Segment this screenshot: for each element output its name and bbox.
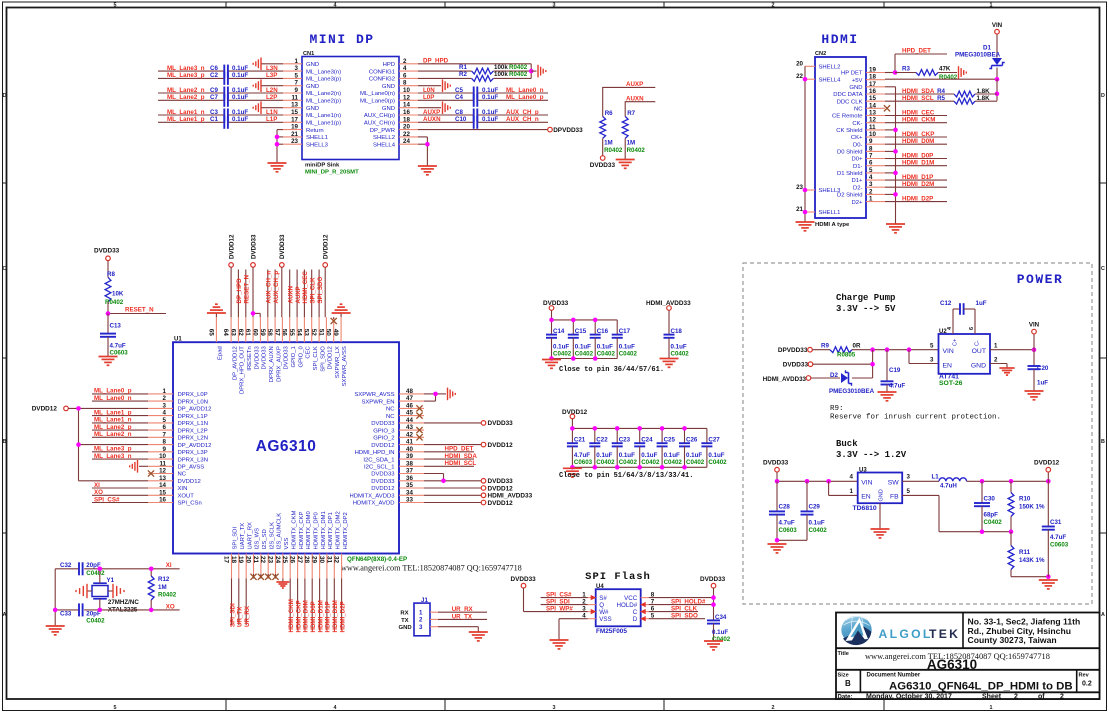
- junction cap rail: [549, 318, 554, 323]
- no-connect X U1 pin 22: [267, 574, 269, 579]
- diode D1 PMEG3010BEA: [989, 58, 1004, 69]
- capacitor C20 1uF: [1028, 350, 1049, 391]
- wire ML_Lane1_n to C3: [158, 114, 283, 116]
- resistor R3 47K: [895, 65, 958, 81]
- junction +5V: [995, 77, 1000, 82]
- svg-text:27MHZ/NC: 27MHZ/NC: [108, 599, 139, 606]
- svg-text:10K: 10K: [112, 291, 124, 298]
- svg-text:HDMI_D1M: HDMI_D1M: [317, 600, 324, 632]
- wire HPD_DET U1 pin 40: [424, 451, 474, 453]
- svg-text:RX: RX: [400, 611, 408, 617]
- svg-text:ML_Lane2_p: ML_Lane2_p: [167, 94, 205, 101]
- svg-text:3: 3: [930, 356, 934, 363]
- svg-text:10: 10: [159, 453, 166, 460]
- svg-text:CK-: CK-: [852, 121, 862, 127]
- title cell: [838, 651, 1050, 672]
- svg-text:R0402: R0402: [627, 147, 646, 154]
- wire U4 VCC rail: [649, 588, 714, 620]
- svg-text:L2P: L2P: [266, 94, 277, 101]
- ground buck output: [1039, 580, 1058, 589]
- svg-text:3: 3: [553, 2, 556, 8]
- svg-text:ML_Lane1_n: ML_Lane1_n: [94, 417, 132, 424]
- svg-text:2: 2: [1060, 694, 1064, 701]
- svg-text:19: 19: [237, 556, 244, 564]
- ground CN1 right shield: [443, 101, 451, 114]
- svg-text:11: 11: [291, 94, 298, 101]
- svg-text:R4: R4: [937, 88, 945, 95]
- svg-text:53: 53: [303, 329, 310, 337]
- svg-text:HDMI A type: HDMI A type: [815, 222, 850, 228]
- svg-text:HDMITX_DP1: HDMITX_DP1: [328, 512, 334, 549]
- svg-text:HPD_DET: HPD_DET: [902, 47, 931, 54]
- no-connect X U1 pin 46: [416, 405, 422, 411]
- wire DVDD33 cap rail: [552, 310, 618, 358]
- op-amp U1 AG6310 QFN64 body: [173, 337, 399, 554]
- svg-text:C32: C32: [60, 562, 72, 569]
- svg-text:21: 21: [291, 131, 298, 138]
- svg-text:DPRX_L1N: DPRX_L1N: [178, 421, 208, 427]
- svg-text:SW: SW: [888, 479, 900, 486]
- svg-text:3: 3: [163, 402, 167, 409]
- svg-text:35: 35: [406, 482, 413, 489]
- wire HDMI_D2P below U1 pin 32: [341, 579, 343, 631]
- capacitor C31 4.7uF: [1042, 481, 1069, 576]
- svg-text:1.8K: 1.8K: [977, 88, 991, 95]
- svg-text:C13: C13: [110, 323, 122, 330]
- size cell: [838, 672, 852, 688]
- svg-text:XOUT: XOUT: [178, 494, 195, 500]
- svg-text:HDMI_CKM: HDMI_CKM: [902, 117, 935, 124]
- svg-text:9: 9: [295, 87, 299, 94]
- svg-text:HDMITX_CKP: HDMITX_CKP: [299, 511, 305, 549]
- svg-text:8: 8: [163, 439, 167, 446]
- svg-text:ML_Lane3_p: ML_Lane3_p: [94, 446, 132, 453]
- junction SXPWR: [433, 392, 438, 397]
- svg-text:4: 4: [163, 410, 167, 417]
- svg-text:6: 6: [869, 160, 873, 167]
- wire ML_Lane2_n to C9: [158, 92, 283, 94]
- svg-text:56: 56: [281, 329, 288, 337]
- svg-text:15: 15: [291, 109, 298, 116]
- wire HDMI_D1P: [885, 179, 947, 181]
- svg-text:D: D: [633, 616, 638, 623]
- svg-text:DVDD33: DVDD33: [251, 234, 258, 259]
- power port DVDD12 right of U1: [481, 486, 486, 491]
- svg-text:1M: 1M: [604, 139, 613, 146]
- svg-text:HDMI_D1M: HDMI_D1M: [902, 160, 934, 167]
- svg-text:GPIO_1: GPIO_1: [291, 346, 297, 367]
- svg-text:65: 65: [207, 329, 214, 337]
- svg-text:VCC: VCC: [624, 595, 638, 602]
- wire UR_RX below U1 pin 19: [245, 579, 247, 626]
- svg-text:C29: C29: [809, 504, 821, 511]
- svg-text:SPI_CLK: SPI_CLK: [671, 605, 698, 612]
- svg-text:DVDD33: DVDD33: [371, 479, 395, 485]
- svg-text:C10: C10: [455, 116, 467, 123]
- power port VIN: [995, 29, 1000, 34]
- svg-text:47: 47: [406, 395, 413, 402]
- svg-text:ML_Lane2_p: ML_Lane2_p: [94, 424, 132, 431]
- svg-text:AUXN: AUXN: [288, 285, 295, 303]
- capacitor C16 0.1uF: [590, 320, 616, 359]
- svg-text:R8: R8: [107, 271, 115, 278]
- capacitor C13 4.7uF: [100, 314, 128, 357]
- svg-text:C0603: C0603: [110, 350, 129, 357]
- svg-text:13: 13: [869, 110, 876, 117]
- svg-text:GPIO_0: GPIO_0: [298, 345, 304, 367]
- wire CN1 GND pin: [261, 85, 283, 87]
- junction SHELL4: [803, 77, 808, 82]
- svg-text:C19: C19: [889, 367, 901, 374]
- svg-text:D: D: [1101, 93, 1105, 99]
- wire L0N to C5: [418, 92, 548, 94]
- svg-text:DVDD33: DVDD33: [284, 345, 290, 369]
- wire HDMI_D1M below U1 pin 29: [319, 579, 321, 631]
- svg-text:ML_Lane3(n): ML_Lane3(n): [306, 69, 341, 75]
- ground CN1 right shield: [443, 79, 451, 92]
- svg-text:0.1uF: 0.1uF: [232, 94, 248, 101]
- wire ML_Lane3_n to C6: [158, 70, 283, 72]
- wire U1 pin 41 to DVDD12: [424, 444, 481, 446]
- svg-text:18: 18: [869, 74, 876, 81]
- svg-text:SHELL2: SHELL2: [819, 65, 841, 71]
- svg-text:D0-: D0-: [853, 142, 863, 148]
- wire DVDD12 to pin64: [230, 267, 232, 317]
- no-connect X U1 pin12: [148, 470, 154, 476]
- resistor R8 10K: [105, 261, 124, 314]
- svg-text:DVDD12: DVDD12: [32, 406, 58, 413]
- svg-text:I2S_SCLK: I2S_SCLK: [269, 522, 275, 550]
- svg-text:VSS: VSS: [599, 616, 611, 623]
- wire HDMI_D0M: [885, 143, 947, 145]
- wire CN1 GND pin: [261, 63, 283, 65]
- wire U1 pin 34 to HDMI_AVDD33: [424, 494, 481, 496]
- svg-text:100k: 100k: [494, 64, 508, 71]
- svg-text:C15: C15: [575, 328, 587, 335]
- title block frame: [836, 613, 1100, 700]
- svg-text:DPRX_L0P: DPRX_L0P: [178, 392, 208, 398]
- svg-text:10: 10: [869, 131, 876, 138]
- svg-text:21: 21: [252, 556, 259, 564]
- svg-text:3.3V --> 1.2V: 3.3V --> 1.2V: [836, 450, 907, 460]
- svg-text:57: 57: [273, 329, 280, 337]
- svg-text:SPI_SDI: SPI_SDI: [233, 527, 239, 550]
- svg-text:SPI_CS#: SPI_CS#: [94, 496, 120, 503]
- svg-text:ML_Lane3_p: ML_Lane3_p: [167, 72, 205, 79]
- svg-text:DPRX_L3P: DPRX_L3P: [178, 450, 208, 456]
- wire HDMI_CEC above U1 pin 54: [303, 270, 305, 318]
- ground CN1 left shield: [253, 58, 261, 71]
- svg-text:0.1uF: 0.1uF: [232, 72, 248, 79]
- svg-text:36: 36: [406, 475, 413, 482]
- svg-text:24: 24: [403, 138, 410, 145]
- svg-text:0.1uF: 0.1uF: [686, 452, 702, 459]
- svg-text:DVDD12: DVDD12: [323, 234, 330, 259]
- power port DVDD12 left of U1: [32, 406, 58, 413]
- svg-text:RESET_N: RESET_N: [244, 274, 251, 303]
- svg-text:+5V: +5V: [852, 78, 863, 84]
- svg-text:SPI_WP#: SPI_WP#: [546, 605, 573, 612]
- svg-text:17: 17: [291, 116, 298, 123]
- svg-text:NC: NC: [178, 472, 187, 478]
- svg-text:ML_Lane1(p): ML_Lane1(p): [306, 121, 341, 127]
- svg-text:C0603: C0603: [779, 527, 798, 534]
- svg-text:D0+: D0+: [852, 157, 864, 163]
- svg-text:7: 7: [295, 80, 299, 87]
- svg-text:18: 18: [230, 556, 237, 564]
- svg-text:DVDD12: DVDD12: [178, 479, 201, 485]
- svg-text:AUX_CH_n: AUX_CH_n: [506, 116, 539, 123]
- svg-text:HDMI_CEC: HDMI_CEC: [302, 271, 309, 304]
- wire CN1 GND pin right: [418, 85, 441, 87]
- svg-text:R0805: R0805: [837, 351, 856, 358]
- svg-text:SPI_CLK: SPI_CLK: [313, 346, 319, 370]
- capacitor C25 0.1uF: [657, 428, 683, 467]
- wire U2 OUT to VIN: [990, 349, 1034, 351]
- svg-text:I2S_SD: I2S_SD: [262, 529, 268, 549]
- svg-text:0.1uF: 0.1uF: [232, 87, 248, 94]
- svg-text:3: 3: [907, 474, 911, 481]
- svg-text:2: 2: [419, 617, 423, 624]
- svg-text:43: 43: [406, 424, 413, 431]
- power port HDMI_AVDD33 right of U1: [481, 493, 486, 498]
- wire UR_TX: [438, 618, 487, 620]
- svg-text:VIN: VIN: [861, 479, 872, 486]
- wire DVDD12 to pin51: [324, 267, 326, 317]
- svg-text:AUX_CH_p: AUX_CH_p: [506, 109, 539, 116]
- svg-text:L1P: L1P: [266, 116, 277, 123]
- svg-text:D1-: D1-: [853, 164, 863, 170]
- junction C30: [980, 479, 985, 484]
- connector CN1 miniDP Sink body: [283, 51, 418, 175]
- svg-text:HDMITX_DP2: HDMITX_DP2: [343, 512, 349, 549]
- svg-text:41: 41: [406, 439, 413, 446]
- wire AUXN to C10: [418, 121, 548, 123]
- logo ALGOLTEK text: [879, 627, 961, 641]
- svg-text:D2-: D2-: [853, 185, 863, 191]
- svg-text:HDMITX_DM0: HDMITX_DM0: [306, 510, 312, 549]
- svg-text:DPRX_L2N: DPRX_L2N: [178, 436, 208, 442]
- svg-text:33: 33: [406, 497, 413, 504]
- junction C19: [885, 347, 890, 352]
- svg-text:2: 2: [1014, 694, 1018, 701]
- svg-text:TD6810: TD6810: [853, 505, 877, 512]
- svg-text:19: 19: [869, 67, 876, 74]
- svg-text:3: 3: [553, 705, 556, 711]
- svg-text:SHELL4: SHELL4: [373, 142, 396, 148]
- svg-text:63: 63: [229, 329, 236, 337]
- junction buck out gnd: [1046, 574, 1051, 579]
- svg-text:HDMI_D0P: HDMI_D0P: [902, 152, 933, 159]
- ground U2: [999, 368, 1014, 375]
- capacitor C6 0.1uF: [210, 65, 248, 78]
- svg-text:RESET_N: RESET_N: [125, 307, 154, 314]
- svg-text:DVDD12: DVDD12: [328, 346, 334, 369]
- svg-text:ML_Lane3_n: ML_Lane3_n: [94, 453, 132, 460]
- svg-text:DPRX_AUXP: DPRX_AUXP: [276, 346, 282, 382]
- svg-text:HDMI_CKP: HDMI_CKP: [902, 131, 934, 138]
- wire L0P to C4: [418, 99, 548, 101]
- svg-text:C0402: C0402: [664, 459, 683, 466]
- svg-text:2: 2: [403, 58, 407, 65]
- svg-text:C: C: [1101, 266, 1105, 272]
- svg-text:HDMI_D0P: HDMI_D0P: [310, 601, 317, 632]
- svg-text:L1N: L1N: [266, 109, 278, 116]
- U1 top pins: [207, 317, 348, 394]
- svg-text:Document Number: Document Number: [867, 672, 921, 678]
- svg-text:TEK: TEK: [929, 627, 960, 641]
- junction cap rail: [571, 318, 576, 323]
- svg-text:SXPWR_AVSS: SXPWR_AVSS: [342, 346, 348, 386]
- wire AUXN above U1 pin 56: [289, 270, 291, 318]
- junction R10: [1009, 479, 1014, 484]
- capacitor C4 0.1uF: [455, 94, 498, 107]
- junction cap rail: [593, 426, 598, 431]
- U1 bottom pins: [223, 510, 349, 578]
- wire SPI_SDI below U1 pin 17: [231, 579, 233, 626]
- svg-text:C31: C31: [1050, 519, 1062, 526]
- svg-text:www.angerei.com TEL:1852087408: www.angerei.com TEL:18520874087 QQ:16597…: [341, 564, 522, 573]
- svg-text:47K: 47K: [939, 65, 951, 72]
- svg-text:40: 40: [406, 446, 413, 453]
- svg-text:ML_Lane0_p: ML_Lane0_p: [506, 94, 544, 101]
- ground XI/XO bus: [46, 626, 65, 635]
- svg-text:HDMI_HPD_IN: HDMI_HPD_IN: [355, 450, 395, 456]
- svg-text:150K 1%: 150K 1%: [1019, 503, 1045, 510]
- svg-text:I2C_SDA_1: I2C_SDA_1: [363, 457, 394, 463]
- svg-text:DP_AVDD12: DP_AVDD12: [232, 346, 238, 380]
- ground U4 VSS: [550, 640, 569, 649]
- junction R12 bottom: [149, 608, 154, 613]
- wire ML_Lane3_p to C2: [158, 77, 283, 79]
- svg-text:0.1uF: 0.1uF: [482, 109, 498, 116]
- svg-text:6: 6: [969, 327, 975, 330]
- svg-text:VIN: VIN: [992, 22, 1003, 29]
- wire CN1 GND pin right: [418, 107, 441, 109]
- svg-text:DVDD33: DVDD33: [488, 420, 514, 427]
- svg-text:XI: XI: [94, 482, 100, 489]
- svg-text:XO: XO: [166, 603, 175, 610]
- svg-text:14: 14: [869, 102, 876, 109]
- svg-text:DVDD33: DVDD33: [279, 234, 286, 259]
- svg-text:GND: GND: [306, 62, 319, 68]
- svg-text:7: 7: [163, 431, 167, 438]
- capacitor C3 0.1uF: [210, 109, 248, 122]
- svg-text:0.1uF: 0.1uF: [641, 452, 657, 459]
- capacitor C26 0.1uF: [679, 428, 705, 467]
- svg-text:C0402: C0402: [984, 519, 1003, 526]
- power port DVDD33 above U1 pin61: [251, 234, 258, 259]
- svg-text:R6: R6: [605, 110, 613, 117]
- wire HDMI_AVDD33 to D2: [811, 377, 840, 379]
- svg-text:5: 5: [295, 72, 299, 79]
- svg-text:R7: R7: [627, 110, 635, 117]
- svg-text:14: 14: [159, 482, 166, 489]
- svg-text:C0402: C0402: [553, 351, 572, 358]
- svg-text:C0402: C0402: [86, 618, 105, 625]
- svg-text:DVDD33: DVDD33: [763, 460, 789, 467]
- svg-text:AUX_CH(p): AUX_CH(p): [364, 113, 395, 119]
- svg-text:R0402: R0402: [604, 147, 623, 154]
- svg-text:CONFIG1: CONFIG1: [369, 69, 395, 75]
- svg-text:5: 5: [907, 488, 911, 495]
- svg-text:GND: GND: [306, 84, 319, 90]
- svg-text:HDMITX_AVDD3: HDMITX_AVDD3: [349, 494, 395, 500]
- svg-text:R9:: R9:: [830, 405, 844, 413]
- svg-text:HDMITX_AVDD: HDMITX_AVDD: [353, 501, 395, 507]
- junction CN2 shield: [893, 149, 898, 154]
- svg-text:DP_AVDD12: DP_AVDD12: [178, 407, 212, 413]
- svg-text:C24: C24: [641, 437, 653, 444]
- svg-text:SXPWR_EN: SXPWR_EN: [361, 399, 394, 405]
- svg-text:SXPWR_AVSS: SXPWR_AVSS: [354, 392, 394, 398]
- wire R11 to ground rail: [1011, 576, 1048, 578]
- capacitor C19 4.7uF: [881, 350, 906, 392]
- svg-text:HDMI_SDA: HDMI_SDA: [902, 88, 935, 95]
- svg-text:L3P: L3P: [266, 72, 277, 79]
- svg-text:2: 2: [994, 356, 998, 363]
- svg-text:C0402: C0402: [686, 459, 705, 466]
- ground DP_AVSS: [130, 460, 138, 473]
- junction CN1 shell bus: [275, 135, 280, 140]
- svg-text:ML_Lane0_n: ML_Lane0_n: [94, 395, 132, 402]
- svg-text:CK+: CK+: [851, 135, 863, 141]
- svg-text:58: 58: [266, 329, 273, 337]
- wire HDMI_D0P: [885, 158, 947, 160]
- svg-text:SHELL1: SHELL1: [819, 210, 841, 216]
- junction cap rail: [615, 426, 620, 431]
- svg-text:D: D: [3, 93, 7, 99]
- capacitor C24 0.1uF: [634, 428, 660, 467]
- svg-text:4: 4: [334, 2, 337, 8]
- svg-text:ML_Lane2(n): ML_Lane2(n): [306, 91, 341, 97]
- svg-text:4.7uH: 4.7uH: [940, 482, 957, 489]
- capacitor C22 0.1uF: [589, 428, 615, 467]
- svg-text:SPI Flash: SPI Flash: [585, 571, 651, 583]
- svg-text:38: 38: [406, 460, 413, 467]
- wire ML_Lane0_p to U1 pin 1: [92, 393, 148, 395]
- svg-text:0.2: 0.2: [1082, 681, 1092, 688]
- wire D2 to rail: [852, 377, 873, 379]
- svg-text:C2: C2: [210, 72, 218, 79]
- svg-text:11: 11: [159, 460, 166, 467]
- svg-text:HDMI_AVDD33: HDMI_AVDD33: [763, 376, 807, 383]
- svg-text:DDC CLK: DDC CLK: [837, 99, 863, 105]
- svg-text:4.7uF: 4.7uF: [779, 520, 795, 527]
- rev cell: [1079, 672, 1092, 687]
- junction HPD: [893, 70, 898, 75]
- svg-text:ML_Lane2_n: ML_Lane2_n: [94, 431, 132, 438]
- ground C34: [704, 641, 723, 650]
- wire U3 GND: [879, 503, 881, 529]
- junction cap rail: [682, 426, 687, 431]
- svg-text:ML_Lane0(n): ML_Lane0(n): [360, 91, 395, 97]
- svg-text:2: 2: [869, 188, 873, 195]
- svg-text:XIN: XIN: [178, 486, 188, 492]
- svg-text:1: 1: [990, 705, 993, 711]
- junction VCC: [711, 595, 716, 600]
- wire CN2 gnd bus: [885, 87, 896, 224]
- ground SXPWR: [448, 388, 456, 401]
- svg-text:51: 51: [317, 329, 324, 337]
- svg-text:13: 13: [291, 102, 298, 109]
- svg-text:C0402: C0402: [596, 459, 615, 466]
- svg-text:39: 39: [406, 453, 413, 460]
- wire R9 to U2 VIN: [852, 349, 939, 351]
- junction RESET_N: [106, 311, 111, 316]
- svg-text:L0P: L0P: [423, 94, 434, 101]
- svg-text:DVDD12: DVDD12: [488, 500, 514, 507]
